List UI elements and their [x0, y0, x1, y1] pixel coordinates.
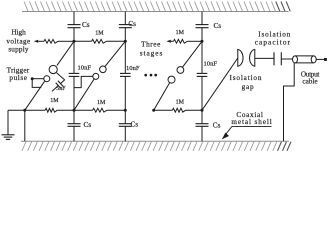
node stage2 bottom — [124, 109, 127, 112]
capacitor Cs (bottom, stage 2) — [124, 110, 126, 124]
spark gap 3 upper lead — [182, 41, 202, 67]
cable shield return wire — [284, 63, 295, 141]
svg-text:1M: 1M — [95, 31, 104, 37]
capacitor 10nF (stage 2) — [124, 41, 126, 73]
ellipsis dots — [144, 74, 147, 77]
svg-text:10nF: 10nF — [204, 61, 218, 68]
wire gap to isolation capacitor — [255, 57, 274, 59]
spark gap 3 lower electrode — [168, 76, 175, 83]
capacitor Cs (top, stage 1) — [73, 12, 75, 25]
wire node to shell — [24, 110, 26, 141]
bottom wire right — [154, 109, 173, 111]
bottom wire — [25, 109, 45, 111]
spark gap 3 upper electrode — [177, 67, 184, 74]
wire down to ground — [7, 110, 9, 135]
wire cable to terminal — [316, 58, 324, 60]
spark gap 1 upper electrode — [49, 65, 57, 73]
gap2 electrode return wire — [74, 76, 93, 87]
coaxial metal shell bottom wall — [22, 142, 277, 151]
svg-text:Three: Three — [141, 40, 161, 48]
wire arrow to R — [171, 40, 174, 42]
bottom wire — [74, 109, 93, 111]
svg-text:Cs: Cs — [213, 121, 221, 129]
isolation capacitor — [273, 52, 275, 65]
node bottom right segment start — [152, 109, 155, 112]
wire node3 to isolation gap — [202, 58, 238, 110]
svg-text:supply: supply — [8, 46, 29, 54]
capacitor Cs (top, stage 2) — [124, 12, 126, 25]
isolation gap right electrode — [250, 49, 255, 66]
node stage1 top — [73, 40, 76, 43]
capacitor Cs (bottom, stage 3) — [201, 110, 203, 124]
ground symbol — [2, 135, 15, 140]
coaxial metal shell top wall — [24, 2, 276, 12]
spark gap 2 upper lead — [105, 41, 125, 66]
capacitor 10nF (stage 3) — [201, 41, 203, 73]
capacitor 5nF (trigger coupling) — [57, 73, 65, 84]
isolation gap left electrode — [238, 49, 243, 66]
svg-text:Cs: Cs — [128, 20, 136, 28]
resistor 1M (bottom, stage1) — [45, 108, 57, 112]
spark gap 2 lower lead — [74, 79, 94, 110]
HV input arrow — [34, 40, 38, 43]
resistor 1M (bottom, stage3) — [173, 108, 186, 112]
svg-text:1M: 1M — [97, 100, 106, 106]
charging resistor — [44, 39, 58, 43]
svg-text:Cs: Cs — [214, 22, 222, 30]
svg-text:10nF: 10nF — [78, 64, 92, 71]
svg-text:Cs: Cs — [82, 21, 90, 29]
bottom wire left end — [8, 109, 25, 111]
svg-text:gap: gap — [242, 83, 255, 91]
node stage1 bottom — [73, 109, 76, 112]
arrow continuation top right — [166, 40, 170, 43]
output cable (coax) — [295, 55, 314, 57]
svg-text:metal shell: metal shell — [231, 118, 272, 126]
node stage3 top — [201, 40, 204, 43]
svg-text:cable: cable — [302, 77, 317, 85]
spark gap 2 upper electrode — [100, 66, 107, 73]
capacitor 10nF (stage 1) — [73, 41, 75, 73]
svg-text:Isolation: Isolation — [229, 74, 262, 82]
trigger node — [31, 77, 34, 80]
wire to node stage1 top — [58, 40, 74, 42]
output terminal — [324, 58, 327, 61]
svg-text:1M: 1M — [176, 100, 185, 106]
svg-text:1M: 1M — [176, 30, 185, 36]
node stage2 top — [124, 40, 127, 43]
spark gap 1 upper lead — [57, 41, 74, 65]
svg-text:High: High — [11, 28, 26, 36]
wire electrode to trigger node — [32, 78, 44, 80]
bottom wire to node1 — [57, 109, 74, 111]
node bottom-left — [23, 109, 26, 112]
node stage3 bottom — [201, 109, 204, 112]
wire capacitor to output cable — [281, 58, 295, 60]
wire R to node stage2 top — [106, 40, 125, 42]
svg-text:1M: 1M — [50, 98, 59, 104]
wire R to node stage3 top — [187, 40, 202, 42]
trigger L wire — [32, 79, 41, 88]
svg-text:5nF: 5nF — [56, 86, 66, 92]
resistor 1M (top, stage3) — [174, 39, 188, 43]
spark gap 2 lower electrode — [93, 73, 99, 79]
capacitor Cs (top, stage 3) — [201, 12, 203, 25]
spark gap 1 lower lead — [25, 81, 45, 110]
svg-text:Cs: Cs — [131, 120, 139, 128]
svg-text:stages: stages — [140, 49, 164, 57]
resistor 1M (bottom, stage2) — [93, 108, 107, 112]
svg-text:pulse: pulse — [9, 74, 27, 82]
svg-text:voltage: voltage — [6, 37, 30, 45]
bottom wire to node2 — [107, 109, 125, 111]
bottom wire to node3 — [186, 109, 202, 111]
svg-text:10nF: 10nF — [126, 65, 140, 72]
svg-text:capacitor: capacitor — [255, 38, 291, 46]
capacitor Cs (bottom, stage 1) — [73, 110, 75, 124]
spark gap 1 lower electrode — [44, 76, 50, 82]
wire node1 to R 1M — [74, 40, 92, 42]
resistor 1M (top, stage1-2) — [92, 39, 107, 43]
wire HV to charging resistor — [38, 40, 44, 42]
svg-text:Cs: Cs — [84, 121, 92, 129]
spark gap 3 lower lead — [154, 83, 170, 111]
